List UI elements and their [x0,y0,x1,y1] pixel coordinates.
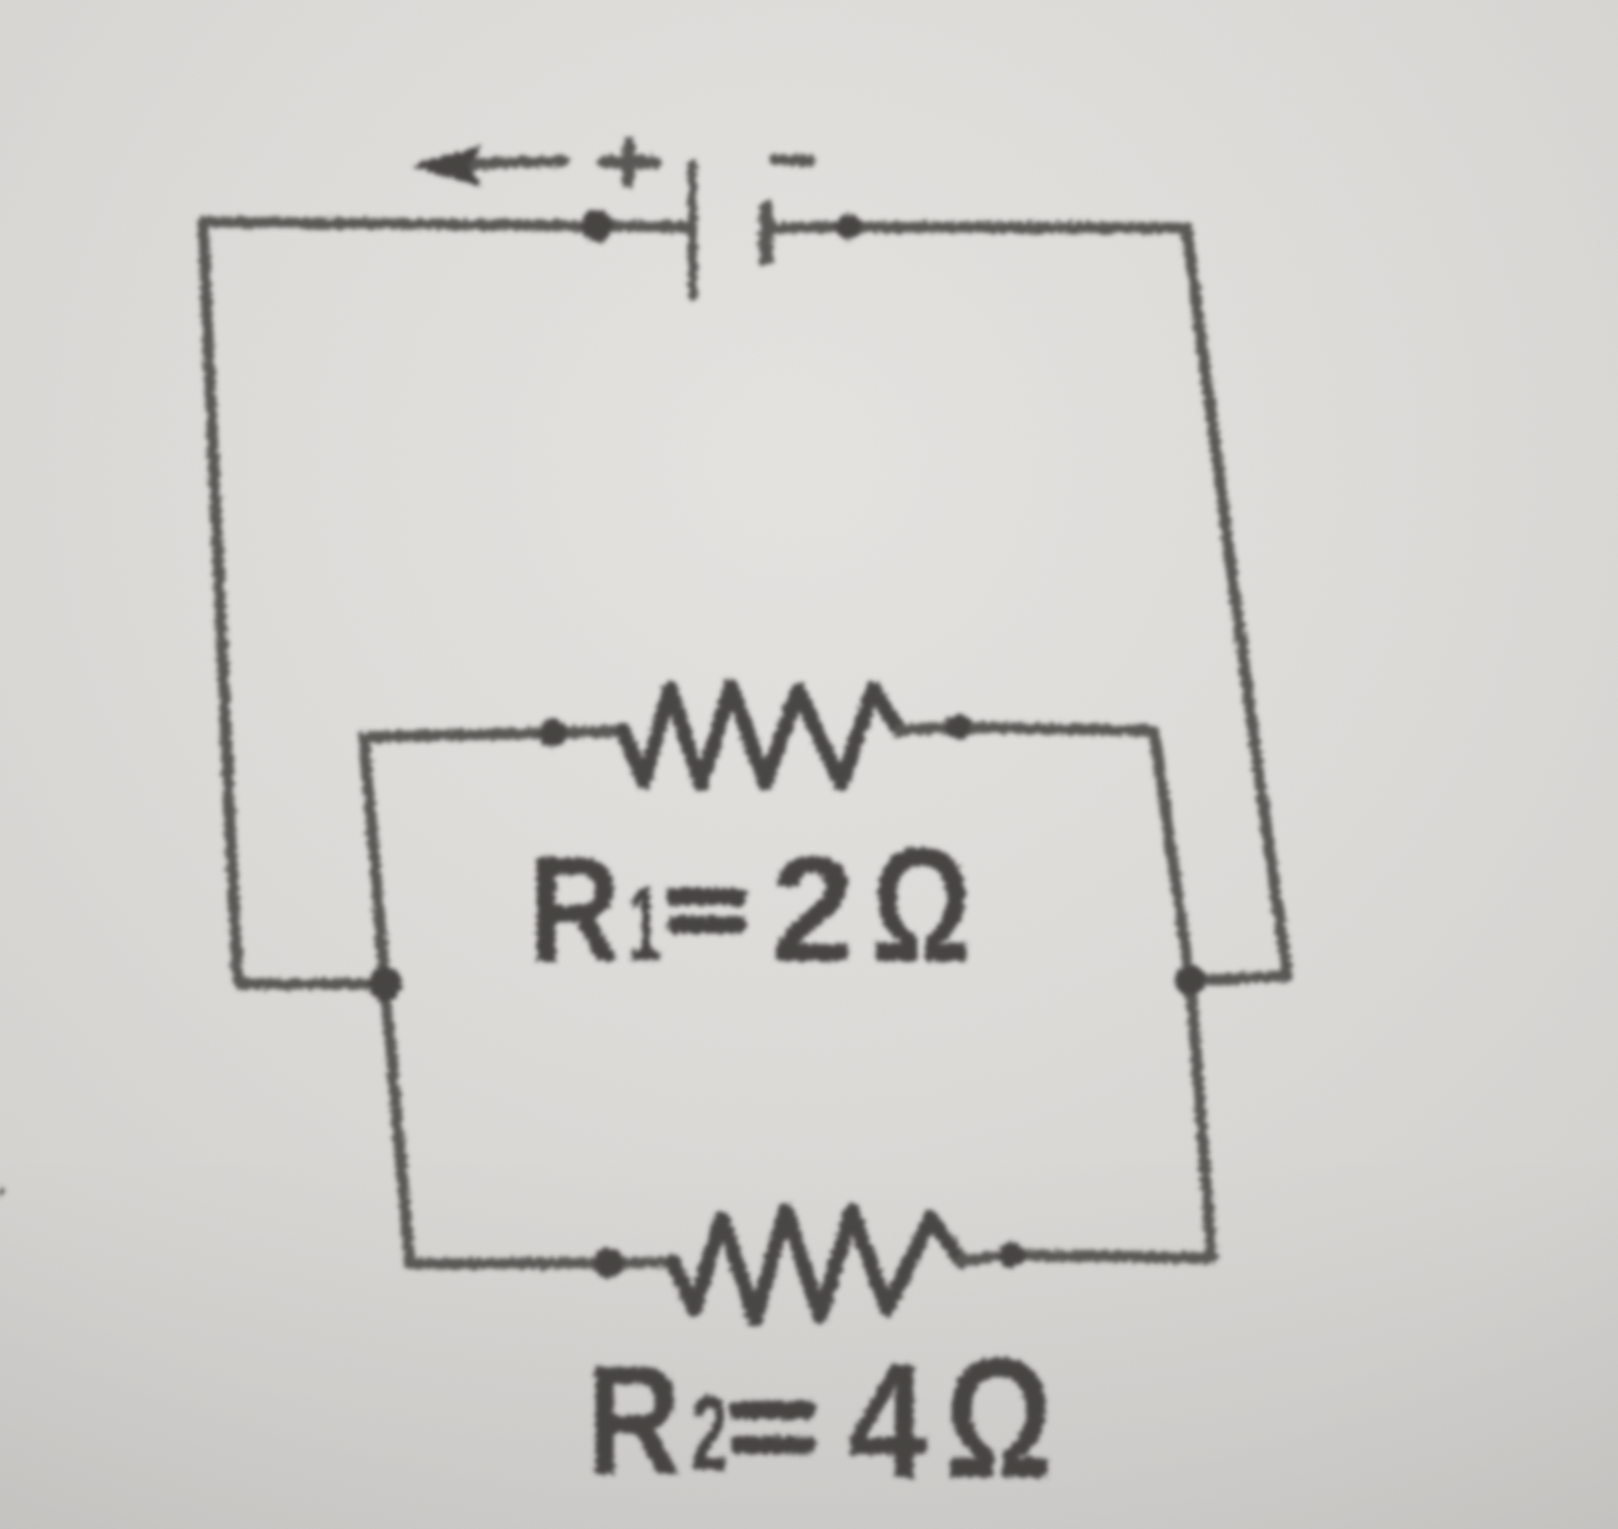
svg-text:R: R [587,1333,682,1507]
svg-text:Ω: Ω [945,1323,1053,1514]
svg-text:Ω: Ω [871,813,972,996]
svg-text:1: 1 [628,864,661,984]
svg-text:4: 4 [848,1330,927,1512]
svg-text:2: 2 [771,825,854,993]
svg-text:R: R [529,826,621,993]
svg-text:2: 2 [691,1373,728,1493]
